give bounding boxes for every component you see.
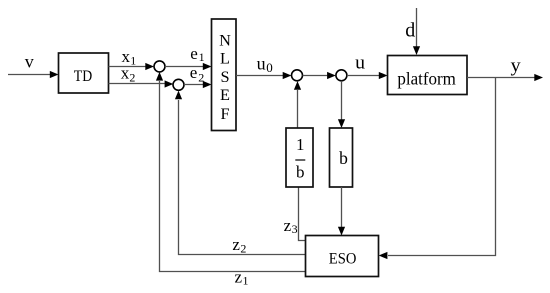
svg-text:1: 1	[199, 50, 205, 64]
svg-text:E: E	[220, 85, 230, 104]
svg-text:TD: TD	[74, 68, 92, 85]
svg-text:e: e	[190, 63, 198, 82]
wire z1 feedback	[160, 81, 306, 272]
wire x1	[109, 66, 146, 68]
svg-text:e: e	[190, 44, 198, 63]
wire summer4 down to b	[341, 81, 343, 120]
block TD	[59, 53, 109, 93]
wire b down to ESO	[341, 187, 343, 227]
block b gain	[330, 128, 353, 187]
svg-text:3: 3	[292, 222, 298, 236]
svg-text:b: b	[339, 148, 348, 168]
svg-text:z: z	[235, 268, 243, 287]
junction summer 1	[154, 61, 165, 72]
svg-text:2: 2	[198, 70, 204, 84]
svg-text:L: L	[220, 48, 230, 67]
wire y feedback to ESO	[388, 78, 496, 256]
wire d disturbance	[416, 8, 418, 47]
wire z3 from ESO to 1/b	[299, 187, 306, 241]
wire y output	[467, 77, 535, 79]
svg-text:0: 0	[266, 60, 273, 75]
svg-text:z: z	[232, 235, 240, 254]
junction summer 2	[173, 79, 184, 90]
wire summer3 to summer4	[303, 75, 328, 77]
svg-text:y: y	[511, 56, 522, 77]
svg-text:platform: platform	[397, 69, 456, 89]
block platform	[388, 56, 468, 95]
svg-text:z: z	[284, 216, 292, 235]
wire u0	[236, 75, 283, 77]
svg-text:d: d	[405, 20, 415, 42]
wire x2	[109, 83, 165, 85]
svg-text:F: F	[220, 104, 229, 123]
svg-text:S: S	[220, 67, 229, 86]
svg-text:2: 2	[240, 242, 246, 256]
svg-text:1: 1	[130, 54, 136, 68]
svg-text:u: u	[355, 53, 365, 74]
wire v input	[8, 74, 51, 76]
block ESO observer	[306, 236, 379, 277]
svg-text:ESO: ESO	[329, 251, 357, 268]
junction summer 4	[336, 70, 347, 81]
wire e1	[165, 66, 203, 68]
wire u to platform	[347, 75, 379, 77]
block NLSEF controller	[212, 19, 237, 131]
svg-text:2: 2	[129, 71, 135, 85]
wire 1/b output up to summer 3	[297, 90, 299, 128]
wire e2	[184, 84, 203, 86]
svg-text:N: N	[219, 30, 231, 49]
svg-text:1: 1	[243, 274, 249, 288]
wire z2 feedback	[179, 100, 306, 255]
svg-text:v: v	[25, 51, 34, 71]
svg-text:u: u	[257, 54, 266, 74]
block 1/b gain	[286, 128, 313, 187]
svg-text:b: b	[296, 163, 305, 182]
junction summer 3	[292, 70, 303, 81]
svg-text:1: 1	[296, 135, 305, 154]
